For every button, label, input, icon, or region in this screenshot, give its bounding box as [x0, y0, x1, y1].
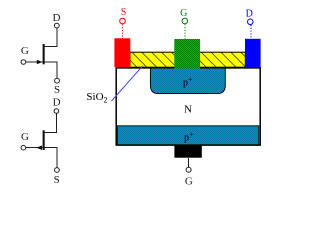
svg-text:G: G	[180, 8, 187, 19]
terminal circle G Q2	[21, 145, 26, 150]
terminal circle S Q1	[55, 78, 60, 83]
arrowhead gate Q2	[36, 145, 42, 150]
terminal circle S Q2	[55, 168, 60, 173]
svg-text:S: S	[121, 7, 127, 18]
svg-text:SiO2: SiO2	[86, 91, 107, 105]
terminal G (top)	[180, 8, 187, 40]
svg-text:S: S	[54, 174, 60, 186]
wire source Q2	[45, 148, 57, 168]
svg-text:N: N	[184, 103, 192, 115]
svg-text:D: D	[53, 97, 61, 109]
wire gate Q1	[26, 61, 43, 63]
substrate gate contact (black)	[174, 146, 201, 158]
contact G (green)	[174, 39, 200, 69]
svg-text:G: G	[185, 176, 193, 188]
svg-text:G: G	[21, 45, 29, 57]
terminal D (top)	[246, 9, 253, 39]
terminal circle D Q1	[54, 23, 59, 28]
svg-text:D: D	[53, 12, 61, 24]
terminal S (top)	[120, 7, 127, 39]
terminal circle D Q2	[54, 109, 59, 114]
contact D (blue)	[245, 39, 261, 68]
channel bar Q2	[43, 130, 45, 150]
svg-text:G: G	[21, 131, 29, 143]
SiO2 oxide layer (hatched)	[130, 52, 245, 67]
contact S (red)	[114, 38, 130, 67]
wire drain Q2	[45, 113, 57, 132]
arrowhead gate Q1	[37, 60, 43, 65]
SiO2 pointer line	[112, 66, 143, 101]
terminal G (bottom)	[185, 158, 193, 188]
p+ bottom layer	[117, 126, 259, 145]
p+ region under gate	[150, 68, 225, 94]
wire source Q1	[45, 62, 57, 78]
transistor Q2 (p-channel JFET symbol)	[21, 97, 61, 187]
wire drain Q1	[45, 28, 57, 46]
channel bar Q1	[43, 44, 45, 64]
N body region	[116, 68, 260, 145]
wire gate Q2	[26, 147, 43, 149]
svg-text:S: S	[54, 84, 60, 96]
svg-text:D: D	[246, 9, 253, 20]
transistor Q1 (n-channel JFET symbol)	[21, 12, 61, 96]
terminal circle G Q1	[21, 60, 26, 65]
